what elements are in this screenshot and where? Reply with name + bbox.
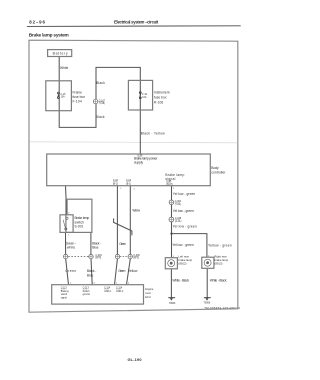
svg-text:Battery: Battery bbox=[53, 52, 68, 56]
svg-text:R-106: R-106 bbox=[154, 101, 163, 105]
svg-text:Blue: Blue bbox=[87, 273, 94, 277]
svg-text:Yellow: Yellow bbox=[128, 269, 138, 273]
svg-text:F-10: F-10 bbox=[142, 94, 147, 96]
svg-text:C-107: C-107 bbox=[99, 100, 106, 102]
svg-text:Green: Green bbox=[65, 269, 76, 273]
svg-text:T0908: T0908 bbox=[204, 303, 211, 305]
svg-text:1: 1 bbox=[120, 188, 122, 190]
svg-text:Instrument: Instrument bbox=[154, 91, 170, 95]
svg-text:Black: Black bbox=[96, 81, 105, 85]
svg-text:2: 2 bbox=[128, 282, 130, 284]
svg-text:Green: Green bbox=[118, 269, 125, 273]
svg-text:Black - Yellow: Black - Yellow bbox=[141, 131, 165, 135]
svg-text:signal: signal bbox=[61, 298, 68, 300]
svg-text:Engine: Engine bbox=[145, 287, 154, 291]
svg-text:room: room bbox=[145, 291, 151, 295]
svg-text:Yel low - green: Yel low - green bbox=[173, 209, 194, 213]
svg-text:C-04: C-04 bbox=[126, 180, 132, 182]
svg-text:10A: 10A bbox=[142, 96, 147, 99]
svg-text:fuse box: fuse box bbox=[154, 96, 167, 100]
svg-text:(Y-09): (Y-09) bbox=[99, 103, 105, 105]
svg-text:Yel low - green: Yel low - green bbox=[173, 224, 197, 228]
svg-text:F-104: F-104 bbox=[73, 99, 82, 103]
svg-text:controller: controller bbox=[211, 170, 226, 174]
svg-text:(B-07): (B-07) bbox=[166, 184, 173, 186]
svg-text:Yellow: Yellow bbox=[132, 209, 141, 213]
svg-text:C-036: C-036 bbox=[133, 255, 140, 257]
svg-text:C-062: C-062 bbox=[175, 201, 182, 203]
svg-text:1: 1 bbox=[134, 189, 136, 191]
svg-text:(W-1): (W-1) bbox=[133, 258, 139, 260]
svg-text:T0906: T0906 bbox=[169, 303, 176, 305]
svg-text:1: 1 bbox=[116, 282, 118, 284]
svg-text:GND-1: GND-1 bbox=[104, 291, 112, 293]
svg-text:82–96: 82–96 bbox=[29, 20, 45, 25]
svg-text:(A-01): (A-01) bbox=[175, 220, 182, 223]
svg-text:F-15: F-15 bbox=[61, 94, 66, 96]
svg-text:White - Black: White - Black bbox=[210, 279, 227, 283]
svg-text:Braking: Braking bbox=[61, 290, 70, 293]
svg-text:Electrical system –circuit: Electrical system –circuit bbox=[114, 20, 159, 25]
svg-text:signal: signal bbox=[165, 177, 175, 181]
svg-text:C-05: C-05 bbox=[166, 181, 172, 183]
svg-text:Brake lamp: Brake lamp bbox=[75, 216, 90, 220]
svg-text:Black -: Black - bbox=[87, 269, 97, 273]
svg-text:(B-2): (B-2) bbox=[113, 183, 118, 185]
svg-text:Yellow - green: Yellow - green bbox=[208, 243, 232, 247]
svg-text:10A: 10A bbox=[61, 96, 66, 99]
svg-text:1: 1 bbox=[173, 188, 175, 190]
svg-text:1: 1 bbox=[68, 235, 70, 237]
svg-text:GL-190: GL-190 bbox=[128, 357, 142, 362]
svg-text:Frame: Frame bbox=[73, 90, 83, 94]
svg-text:2: 2 bbox=[68, 212, 70, 214]
svg-text:C-04: C-04 bbox=[113, 180, 119, 182]
svg-text:Brake lamp system: Brake lamp system bbox=[29, 32, 69, 38]
svg-text:C-034: C-034 bbox=[95, 255, 102, 257]
svg-text:ground: ground bbox=[83, 293, 91, 296]
svg-text:Yel low - green: Yel low - green bbox=[173, 192, 196, 196]
svg-text:Green: Green bbox=[119, 242, 126, 246]
svg-text:White - Black: White - Black bbox=[172, 279, 189, 283]
svg-text:ECU: ECU bbox=[145, 295, 151, 299]
svg-text:GND-2: GND-2 bbox=[116, 291, 124, 293]
svg-text:(8913): (8913) bbox=[214, 262, 222, 266]
svg-text:1: 1 bbox=[70, 282, 72, 284]
svg-text:4: 4 bbox=[94, 282, 96, 284]
svg-text:Blue: Blue bbox=[92, 246, 99, 250]
svg-text:fuse box: fuse box bbox=[73, 95, 86, 99]
svg-text:Black: Black bbox=[96, 115, 105, 119]
svg-text:white: white bbox=[67, 246, 75, 250]
svg-text:supply: supply bbox=[134, 161, 143, 165]
svg-text:(8912): (8912) bbox=[178, 262, 186, 266]
svg-text:TM-09645A-105-0067-3: TM-09645A-105-0067-3 bbox=[204, 306, 240, 310]
svg-text:(W-3): (W-3) bbox=[95, 258, 101, 260]
svg-text:S-001: S-001 bbox=[75, 225, 84, 229]
svg-text:Yel low - green: Yel low - green bbox=[172, 243, 194, 247]
svg-text:C-048: C-048 bbox=[175, 218, 182, 220]
svg-text:White: White bbox=[60, 66, 69, 70]
svg-text:switch: switch bbox=[61, 293, 68, 296]
svg-text:Switch: Switch bbox=[83, 290, 91, 293]
svg-text:(Y-04): (Y-04) bbox=[175, 204, 181, 206]
svg-text:(B-1): (B-1) bbox=[126, 183, 131, 185]
